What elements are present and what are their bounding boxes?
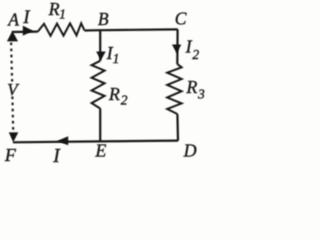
- arrowhead down for current I2: [172, 45, 181, 54]
- svg-text:F: F: [4, 145, 17, 165]
- dashed line V lower part: [11, 97, 14, 132]
- arrowhead right for current I at top: [23, 26, 33, 36]
- wire B to C: [100, 28, 178, 31]
- arrowhead down at F (V line bottom): [9, 132, 18, 142]
- svg-text:B: B: [98, 9, 109, 29]
- wire R3 to D: [176, 114, 179, 141]
- wire B down to R2: [99, 30, 101, 61]
- arrowhead up at A (V line top): [7, 31, 18, 42]
- arrowhead down for current I1: [96, 52, 106, 61]
- svg-text:A: A: [7, 10, 19, 30]
- wire E to F: [13, 140, 100, 143]
- dashed line V upper part: [11, 43, 12, 82]
- resistor R1: [38, 23, 85, 36]
- wire R1 to B: [85, 29, 101, 31]
- svg-text:D: D: [183, 141, 197, 161]
- svg-text:C: C: [175, 9, 187, 29]
- resistor R3: [167, 64, 181, 114]
- wire D to E: [100, 140, 178, 143]
- wire C down to R3: [176, 29, 179, 64]
- wire R2 to E: [99, 109, 101, 143]
- resistor R2: [92, 61, 105, 109]
- wire A to R1: [12, 31, 38, 34]
- svg-text:E: E: [94, 141, 106, 161]
- arrowhead left for current I at bottom: [57, 136, 68, 145]
